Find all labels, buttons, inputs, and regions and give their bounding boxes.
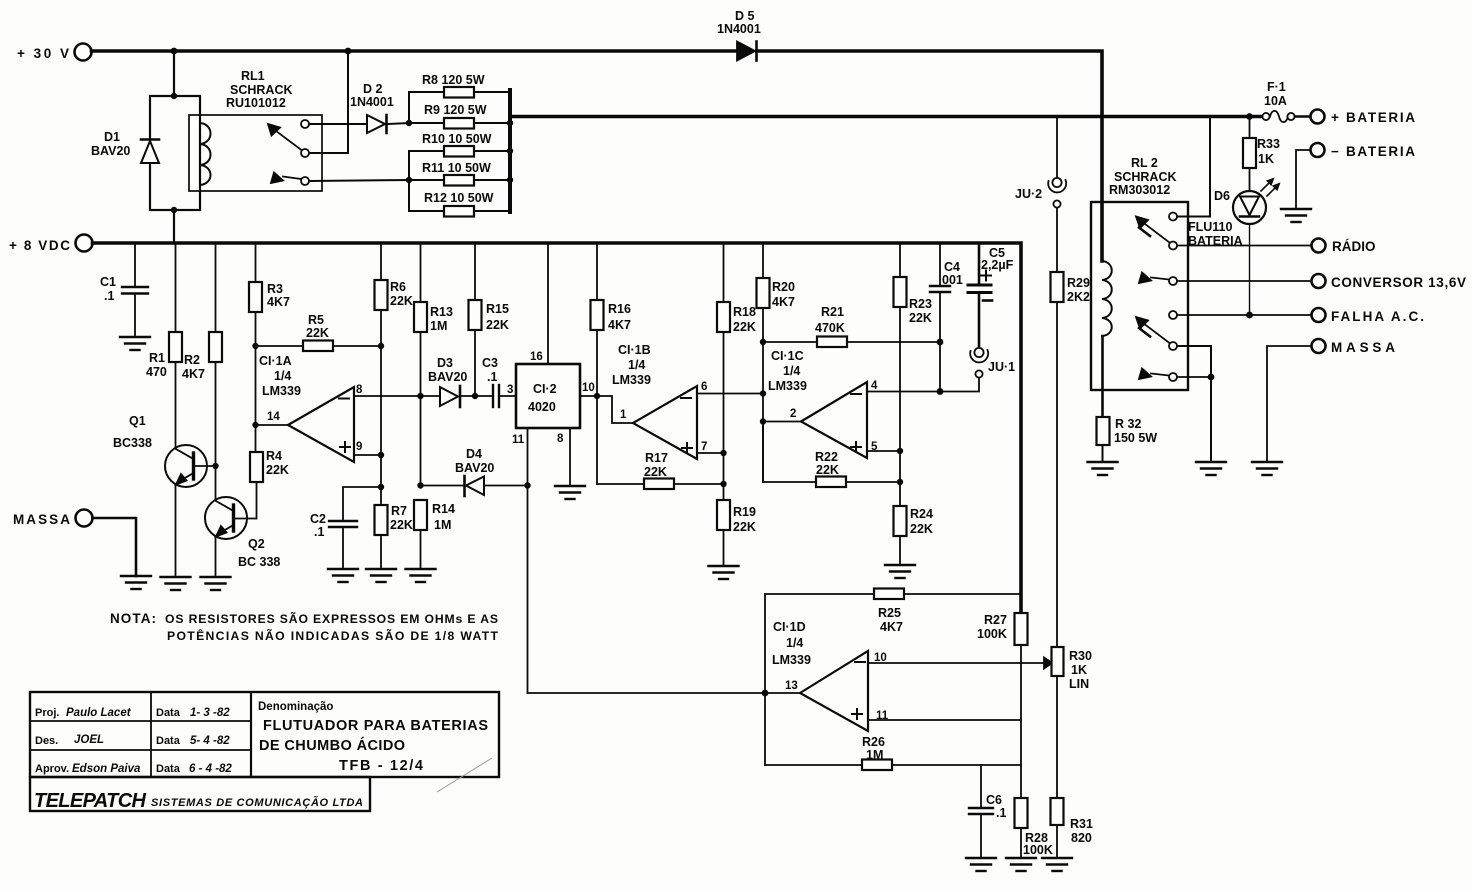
wire C5 to JU1 — [978, 293, 981, 348]
relay RL2 contact 5 — [1169, 342, 1177, 350]
wire CI-1D feedback loop left vertical — [764, 594, 766, 765]
wire MASSA right to ground — [1267, 346, 1312, 462]
svg-text:Aprov.: Aprov. — [35, 763, 69, 775]
op-amp CI-1B 1/4 LM339 — [633, 386, 697, 459]
wire R2 to Q1 base node — [215, 362, 217, 466]
svg-text:1- 3 -82: 1- 3 -82 — [190, 707, 230, 719]
op-amp CI-1C 1/4 LM339 — [801, 382, 867, 458]
svg-text:C4: C4 — [944, 260, 960, 274]
wire bank lower-left rail — [408, 151, 410, 211]
svg-text:Data: Data — [156, 735, 181, 747]
wire R23 down to R24 — [899, 307, 901, 506]
svg-text:470: 470 — [146, 365, 167, 379]
wire RL2 coil bottom to R32 — [1101, 336, 1104, 417]
svg-text:R5: R5 — [308, 313, 324, 327]
node dot right rail R9 — [507, 120, 513, 126]
wire D1 loop bottom to +8VDC rail — [173, 210, 175, 242]
wire D6 down to FALHA wire — [1249, 224, 1251, 315]
svg-text:1N4001: 1N4001 — [350, 95, 394, 109]
wire bank right rail (thick) — [508, 90, 512, 212]
wire R30 down to R31 — [1056, 676, 1058, 798]
svg-text:R17: R17 — [645, 451, 668, 465]
svg-text:JU·2: JU·2 — [1015, 187, 1042, 201]
svg-text:BAV20: BAV20 — [428, 370, 467, 384]
svg-text:4K7: 4K7 — [267, 295, 290, 309]
svg-text:BAV20: BAV20 — [455, 461, 494, 475]
wire CI-1A input to apex — [256, 424, 289, 426]
svg-text:1/4: 1/4 — [628, 358, 645, 372]
node terminal CONVERSOR — [1312, 274, 1326, 288]
node terminal -BATERIA — [1311, 143, 1325, 157]
svg-text:+ 30 V: + 30 V — [17, 46, 69, 61]
resistor R13 1M — [420, 243, 422, 302]
resistor R24 22K — [894, 506, 907, 536]
diode D3 BAV20 — [440, 387, 458, 406]
svg-text:9: 9 — [356, 441, 362, 453]
relay RL2 box — [1091, 202, 1188, 390]
svg-text:R29: R29 — [1067, 276, 1090, 290]
wire RL2 contact1 up to battery line — [1178, 117, 1211, 217]
svg-text:R6: R6 — [390, 280, 406, 294]
wire +30V rail to D1 loop top — [173, 51, 175, 96]
svg-text:.1: .1 — [314, 525, 324, 539]
diode D4 BAV20 — [421, 485, 467, 487]
svg-text:16: 16 — [530, 351, 543, 363]
wire R28 to ground — [1020, 828, 1022, 858]
diode D2 1N4001 — [367, 115, 385, 133]
svg-text:22K: 22K — [486, 318, 509, 332]
svg-text:R8 120 5W: R8 120 5W — [422, 73, 485, 87]
node junction dot C4 bottom on pin4 wire — [937, 388, 944, 395]
svg-text:SCHRACK: SCHRACK — [230, 83, 293, 97]
ground below R28 — [1006, 858, 1036, 871]
wire -BATERIA to ground — [1296, 150, 1311, 209]
ground below RL2 contacts — [1196, 462, 1226, 475]
svg-text:TFB - 12/4: TFB - 12/4 — [339, 758, 423, 774]
wire bank upper-left rail — [408, 92, 410, 123]
wire battery line (thick) from bank to fuse — [510, 115, 1266, 119]
relay RL2 contact 3 — [1169, 277, 1177, 285]
ground below R7 — [366, 569, 396, 582]
svg-text:10A: 10A — [1264, 94, 1287, 108]
svg-text:1K: 1K — [1071, 663, 1087, 677]
node junction dot R5 right — [378, 343, 384, 349]
node junction dot CI-1C input — [760, 418, 766, 424]
svg-text:Paulo Lacet: Paulo Lacet — [66, 707, 132, 719]
wire R27 to R28 — [1020, 645, 1022, 798]
resistor R12 10 50W — [409, 210, 444, 212]
resistor R31 820 — [1051, 798, 1064, 825]
wire R1 to Q1 collector — [175, 362, 177, 448]
wire JU2 to R29 — [1056, 208, 1058, 272]
svg-text:.1: .1 — [996, 806, 1006, 820]
resistor R32 150 5W — [1097, 417, 1110, 445]
wire pin10 node to CI-1B input — [597, 396, 633, 423]
svg-text:LIN: LIN — [1069, 677, 1089, 691]
svg-text:150 5W: 150 5W — [1114, 431, 1157, 445]
svg-text:R7: R7 — [391, 504, 407, 518]
svg-text:R10 10 50W: R10 10 50W — [422, 132, 492, 146]
svg-text:SCHRACK: SCHRACK — [1114, 170, 1177, 184]
svg-text:R 32: R 32 — [1115, 417, 1141, 431]
svg-text:1M: 1M — [434, 518, 451, 532]
svg-text:BAV20: BAV20 — [91, 144, 130, 158]
svg-text:22K: 22K — [644, 465, 667, 479]
relay RL2 blade 2 with arrow — [1145, 325, 1170, 344]
svg-text:Des.: Des. — [35, 735, 58, 747]
resistor R9 120 5W — [409, 122, 444, 124]
svg-text:1N4001: 1N4001 — [717, 22, 761, 36]
svg-text:CI·1D: CI·1D — [773, 620, 806, 634]
svg-text:R24: R24 — [910, 507, 933, 521]
wire MASSA to ground — [93, 518, 137, 576]
ground below R24 — [885, 565, 915, 578]
svg-text:R3: R3 — [267, 282, 283, 296]
svg-text:R9 120 5W: R9 120 5W — [424, 103, 487, 117]
svg-text:R31: R31 — [1070, 817, 1093, 831]
svg-text:11: 11 — [512, 434, 525, 446]
svg-text:LM339: LM339 — [772, 653, 811, 667]
svg-text:R15: R15 — [486, 302, 509, 316]
svg-text:22K: 22K — [733, 320, 756, 334]
wire R20 down through CI-1C input nodes — [762, 308, 764, 482]
relay RL1 contact 1 — [301, 120, 309, 128]
ground below R32 — [1088, 462, 1118, 475]
LED D6 FLU110 BATERIA — [1233, 191, 1266, 224]
ground below -BATERIA — [1281, 209, 1311, 222]
svg-text:R13: R13 — [430, 305, 453, 319]
wire R7 to ground — [380, 535, 382, 569]
svg-text:4020: 4020 — [528, 400, 556, 414]
svg-text:JOEL: JOEL — [74, 734, 104, 746]
capacitor C3 .1 — [492, 385, 494, 407]
node junction dot R33 on battery line — [1246, 113, 1253, 120]
node junction dot on +30V rail at D1 branch — [171, 48, 178, 55]
svg-text:C3: C3 — [482, 356, 498, 370]
wire RL1 contact3 to lower bank — [310, 180, 410, 181]
node junction dot pin5 — [897, 448, 903, 454]
svg-text:MASSA: MASSA — [1331, 340, 1395, 355]
relay RL1 contact 2 (common) — [301, 149, 309, 157]
node junction dot CI-1D loop left — [762, 690, 769, 697]
svg-text:13: 13 — [785, 680, 798, 692]
svg-text:6: 6 — [701, 381, 707, 393]
wire RL2 contact4 to FALHA AC terminal — [1178, 314, 1312, 316]
node +30V terminal — [75, 44, 92, 61]
relay RL1 NO contact arrow — [283, 177, 301, 180]
wire RL2 contact6 join — [1178, 376, 1212, 378]
ground below C2 — [328, 569, 358, 582]
svg-text:BC338: BC338 — [113, 436, 152, 450]
svg-text:4: 4 — [871, 380, 878, 392]
svg-text:D4: D4 — [466, 447, 482, 461]
title block — [30, 692, 499, 811]
wire D3 to C3 — [461, 395, 493, 397]
node junction dot on +30V rail at RL1 contact branch — [345, 48, 352, 55]
wire R33 to D6 — [1249, 168, 1251, 191]
svg-text:NOTA:: NOTA: — [110, 611, 156, 626]
pin 16 wire to +8VDC — [547, 243, 549, 364]
wire CI-1C pin5 to R23 line — [867, 450, 900, 452]
resistor R6 22K — [380, 243, 382, 280]
svg-text:R2: R2 — [184, 353, 200, 367]
op-amp CI-1A 1/4 LM339 — [288, 387, 354, 462]
wire RL1 contact1 to D2 — [310, 123, 368, 125]
resistor R7 22K — [375, 505, 388, 535]
ground below CI-2 pin 8 — [555, 486, 585, 499]
svg-text:R18: R18 — [733, 305, 756, 319]
node junction dot CI-2 pin10 — [594, 393, 600, 399]
ground below R31 — [1042, 858, 1072, 871]
svg-text:22K: 22K — [306, 326, 329, 340]
wire +8VDC rail — [93, 243, 1022, 613]
note NOTA resistor values — [110, 611, 499, 643]
svg-text:− BATERIA: − BATERIA — [1331, 144, 1415, 159]
wire R13 to D4 node — [420, 332, 422, 486]
relay RL2 contact 1 — [1169, 213, 1177, 221]
svg-text:BATERIA: BATERIA — [1188, 234, 1243, 248]
svg-text:Q2: Q2 — [248, 537, 265, 551]
resistor R15 22K — [474, 243, 476, 300]
resistor R27 100K — [1015, 613, 1028, 645]
svg-text:Q1: Q1 — [129, 414, 146, 428]
resistor R11 10 50W — [409, 179, 444, 181]
svg-text:001: 001 — [942, 273, 963, 287]
svg-text:FALHA A.C.: FALHA A.C. — [1331, 309, 1424, 324]
svg-text:1M: 1M — [866, 748, 883, 762]
svg-text:22K: 22K — [909, 311, 932, 325]
svg-text:RÁDIO: RÁDIO — [1332, 239, 1376, 254]
svg-text:R26: R26 — [862, 735, 885, 749]
pin 10 output wire — [580, 395, 597, 397]
wire Q1 emitter to ground — [175, 484, 177, 577]
wire RL2 contact5 to ground drop — [1178, 346, 1212, 462]
svg-text:RL 2: RL 2 — [1131, 156, 1158, 170]
svg-text:22K: 22K — [816, 463, 839, 477]
svg-text:22K: 22K — [390, 294, 413, 308]
svg-text:DE CHUMBO ÁCIDO: DE CHUMBO ÁCIDO — [259, 737, 405, 754]
svg-text:CI·2: CI·2 — [533, 382, 557, 396]
resistor R19 22K — [717, 500, 730, 530]
svg-text:1: 1 — [620, 409, 627, 421]
svg-text:Proj.: Proj. — [35, 707, 59, 719]
wire R6 down through nodes to R7 — [380, 310, 382, 505]
node terminal +BATERIA — [1311, 110, 1325, 124]
resistor R2 4K7 — [215, 243, 217, 332]
node junction dot D6 line on FALHA wire — [1246, 312, 1253, 319]
svg-text:FLU110: FLU110 — [1188, 220, 1233, 234]
node junction dot bank upper-left — [406, 120, 412, 126]
relay RL1 contact 3 — [301, 177, 309, 185]
wire CI-1D pin10 to R30 wiper arrow — [868, 662, 1044, 664]
svg-text:R14: R14 — [432, 502, 455, 516]
resistor R14 1M — [414, 500, 427, 530]
relay RL1 coil — [200, 123, 211, 185]
resistor R22 22K — [816, 477, 846, 488]
diode D1 BAV20 with parallel loop around RL1 coil — [150, 96, 200, 210]
svg-text:RM303012: RM303012 — [1109, 183, 1170, 197]
svg-text:R27: R27 — [984, 613, 1007, 627]
svg-text:5- 4 -82: 5- 4 -82 — [190, 735, 230, 747]
resistor R10 10 50W — [409, 150, 444, 152]
potentiometer R30 1K LIN — [1052, 647, 1064, 676]
node junction dot pin6 arrival — [760, 390, 766, 396]
node dot right rail R11 — [507, 177, 513, 183]
node junction dot bank lower-left — [406, 177, 412, 183]
svg-text:2,2µF: 2,2µF — [981, 258, 1014, 272]
svg-text:OS RESISTORES SÃO EXPRESSOS EM: OS RESISTORES SÃO EXPRESSOS EM OHMs E AS — [165, 611, 498, 626]
svg-text:BC 338: BC 338 — [238, 555, 280, 569]
svg-text:R12 10 50W: R12 10 50W — [424, 191, 494, 205]
svg-text:R33: R33 — [1257, 137, 1280, 151]
svg-text:4K7: 4K7 — [772, 295, 795, 309]
node junction dot R13 line on pin8 wire — [417, 393, 423, 399]
resistor R29 2K2 — [1051, 272, 1064, 302]
node junction dot C3/R15 — [472, 393, 478, 399]
node junction dot R3/R5 — [252, 343, 258, 349]
wire R15 to pin8 wire — [474, 330, 476, 396]
svg-text:R4: R4 — [266, 449, 282, 463]
svg-text:4K7: 4K7 — [608, 318, 631, 332]
svg-text:.1: .1 — [104, 289, 114, 303]
svg-text:RL1: RL1 — [241, 69, 265, 83]
svg-text:R21: R21 — [821, 305, 844, 319]
svg-text:470K: 470K — [815, 321, 845, 335]
svg-text:+ BATERIA: + BATERIA — [1331, 110, 1415, 125]
wire R3 to node 14 — [255, 312, 257, 425]
node junction dot D1 loop bottom — [171, 207, 177, 213]
resistor R17 22K — [597, 483, 644, 485]
wire long CI-2 pin11 to CI-1D apex — [528, 692, 801, 694]
svg-text:22K: 22K — [733, 520, 756, 534]
wire +30V rail down to RL1 contact 2 — [310, 51, 349, 153]
capacitor C6 .1 — [980, 765, 982, 808]
svg-text:POTÊNCIAS NÃO INDICADAS SÃO DE: POTÊNCIAS NÃO INDICADAS SÃO DE 1/8 WATT — [167, 628, 499, 643]
op-amp CI-1D 1/4 LM339 — [800, 651, 868, 731]
wire R4 to Q2 base — [256, 482, 258, 519]
svg-text:1K: 1K — [1258, 152, 1274, 166]
wire R14 to ground — [420, 530, 422, 569]
node +8VDC terminal — [76, 235, 93, 252]
svg-text:+ 8 VDC: + 8 VDC — [9, 238, 70, 253]
svg-text:CI·1B: CI·1B — [618, 343, 651, 357]
svg-text:1/4: 1/4 — [783, 364, 800, 378]
resistor R8 120 5W — [409, 91, 444, 93]
resistor R21 470K — [763, 341, 817, 343]
svg-text:CI·1A: CI·1A — [259, 354, 292, 368]
diode D5 1N4001 — [737, 42, 755, 61]
wire node down to Q2 — [215, 466, 217, 499]
wire +30V rail left of D5 — [92, 49, 738, 53]
svg-text:1/4: 1/4 — [274, 369, 291, 383]
relay RL2 blade 1 with arrow — [1145, 224, 1170, 243]
svg-text:SISTEMAS DE COMUNICAÇÃO LTDA: SISTEMAS DE COMUNICAÇÃO LTDA — [151, 796, 363, 809]
svg-text:1M: 1M — [430, 319, 447, 333]
svg-text:1/4: 1/4 — [786, 636, 803, 650]
node junction dot C2 branch — [378, 484, 384, 490]
pin 11 wire down to CI-1D — [527, 428, 529, 693]
svg-text:22K: 22K — [390, 518, 413, 532]
node junction dot R21 right — [937, 339, 944, 346]
node junction dot contact5/6 — [1208, 374, 1215, 381]
svg-text:MASSA: MASSA — [13, 512, 70, 527]
resistor R25 4K7 — [765, 593, 874, 595]
svg-text:R22: R22 — [815, 450, 838, 464]
svg-text:FLUTUADOR PARA BATERIAS: FLUTUADOR PARA BATERIAS — [263, 718, 488, 734]
svg-text:CI·1C: CI·1C — [771, 349, 804, 363]
ground below Q2 — [201, 577, 231, 590]
resistor R18 22K — [723, 243, 725, 302]
svg-text:R11 10 50W: R11 10 50W — [422, 161, 491, 175]
svg-text:.1: .1 — [487, 370, 497, 384]
node junction dot D4 right — [524, 482, 530, 488]
wire D2 cathode to resistor bank — [388, 123, 409, 124]
node junction dot pin9 — [378, 452, 384, 458]
wire CI-1D pin11 to R27/R28 line — [868, 719, 1021, 721]
svg-text:Edson Paiva: Edson Paiva — [72, 763, 141, 775]
svg-text:R30: R30 — [1069, 649, 1092, 663]
fuse F1 10A — [1262, 113, 1269, 120]
node junction dot D4 left — [417, 482, 423, 488]
jumper JU1 — [974, 348, 983, 357]
resistor R5 22K — [256, 345, 304, 347]
wire CI-1B pin6 to CI-1C node — [697, 393, 763, 395]
resistor R4 22K — [255, 425, 257, 452]
svg-text:C2: C2 — [310, 512, 326, 526]
ground below C6 — [966, 858, 996, 871]
svg-text:LM339: LM339 — [262, 384, 301, 398]
IC CI-2 4020 — [516, 364, 580, 428]
svg-text:100K: 100K — [1023, 843, 1053, 857]
wire CI-1A pin9 to R6 line — [354, 454, 381, 456]
capacitor C2 .1 — [343, 487, 381, 521]
ground below MASSA right wire — [1252, 462, 1282, 475]
ground below R19 — [709, 566, 739, 579]
svg-text:100K: 100K — [977, 627, 1007, 641]
relay RL2 NO arrow contact 6 — [1151, 374, 1169, 376]
ground below C1 — [120, 337, 150, 350]
svg-text:Data: Data — [156, 707, 181, 719]
ground MASSA left — [121, 576, 151, 589]
svg-text:22K: 22K — [266, 463, 289, 477]
node junction dot pin7 — [720, 450, 726, 456]
node junction dot R22 right — [897, 479, 903, 485]
wire CI-1C input to apex — [763, 421, 801, 423]
resistor R1 470 — [175, 243, 177, 332]
resistor R33 1K — [1249, 117, 1251, 139]
svg-text:F·1: F·1 — [1267, 80, 1286, 94]
jumper JU2 — [1052, 178, 1061, 187]
wire R22 loop — [763, 422, 816, 483]
svg-text:10: 10 — [582, 382, 595, 394]
svg-text:RU101012: RU101012 — [226, 96, 286, 110]
capacitor C1 .1 — [134, 243, 136, 287]
relay RL2 NO arrow contact 3 — [1151, 278, 1169, 280]
resistor R26 1M — [765, 764, 862, 766]
wire +30V rail right of D5 to corner, down to battery line and RL2 coil — [757, 51, 1102, 261]
svg-text:3: 3 — [507, 384, 513, 396]
svg-text:C6: C6 — [986, 793, 1002, 807]
svg-text:D 2: D 2 — [363, 82, 383, 96]
resistor R20 4K7 — [762, 243, 764, 278]
node terminal FALHA A.C. — [1312, 308, 1326, 322]
relay RL2 contact 6 — [1169, 373, 1177, 381]
wire CI-1A pin8 output to D3 — [354, 395, 440, 397]
svg-text:TELEPATCH: TELEPATCH — [34, 790, 147, 812]
relay RL1 box — [189, 115, 322, 191]
svg-text:D 5: D 5 — [735, 9, 755, 23]
resistor R28 100K — [1015, 798, 1028, 828]
